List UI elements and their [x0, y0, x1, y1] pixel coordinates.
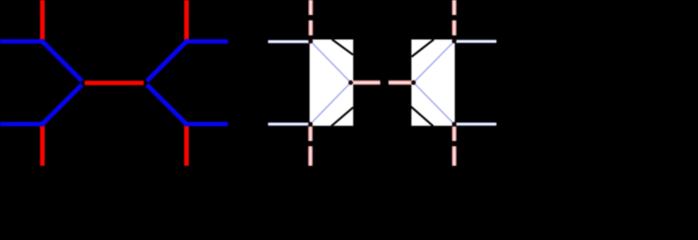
blue edge left horizontal into B [0, 122, 43, 126]
blue edge left horizontal into A [0, 39, 43, 43]
blue diagonal edge A-C [41, 40, 82, 81]
blue thin diagonal TR-LR (right box) [414, 41, 455, 82]
white box left [310, 40, 354, 126]
vertex dot RL [348, 80, 353, 85]
black corner line left box top [332, 39, 353, 55]
red edge center C-D [85, 81, 144, 85]
pink dashed double edge top-right vertical [452, 0, 456, 41]
vertex dot TL [308, 39, 313, 44]
blue diagonal edge B-C [41, 85, 82, 126]
vertex dot LR [411, 80, 416, 85]
blue thin diagonal BR-LR (right box) [414, 83, 455, 125]
vertex dot BR [452, 122, 457, 127]
pink dashed double edge bottom-right vertical [452, 127, 456, 166]
pale double edge left-bottom horizontal [268, 122, 310, 125]
black corner line right box top [412, 39, 434, 56]
pale double edge right-bottom horizontal [455, 122, 496, 125]
blue thin diagonal TL-RL (left box) [311, 41, 351, 82]
pale double edge right-top horizontal [455, 40, 496, 43]
blue thin diagonal BL-RL (left box) [310, 83, 350, 125]
red edge bottom-left vertical (B down) [40, 124, 45, 165]
red edge top-left vertical (A up) [40, 0, 45, 41]
black corner line left box bottom [331, 107, 353, 126]
blue edge right horizontal from F [186, 122, 228, 126]
blue diagonal edge F-D [147, 85, 188, 126]
red edge bottom-right vertical (F down) [184, 124, 189, 165]
vertex dot BL [308, 122, 313, 127]
red edge top-right vertical (E up) [184, 0, 189, 41]
black corner line right box bottom [411, 106, 434, 126]
pink dashed double edge top-left vertical [309, 0, 313, 41]
blue diagonal edge E-D [147, 40, 188, 81]
blue edge right horizontal from E [186, 39, 228, 43]
white box right [411, 40, 454, 126]
pink dashed double edge center horizontal [353, 80, 413, 84]
vertex dot TR [452, 39, 457, 44]
pink dashed double edge bottom-left vertical [308, 127, 312, 166]
pale double edge left-top horizontal [268, 40, 310, 43]
